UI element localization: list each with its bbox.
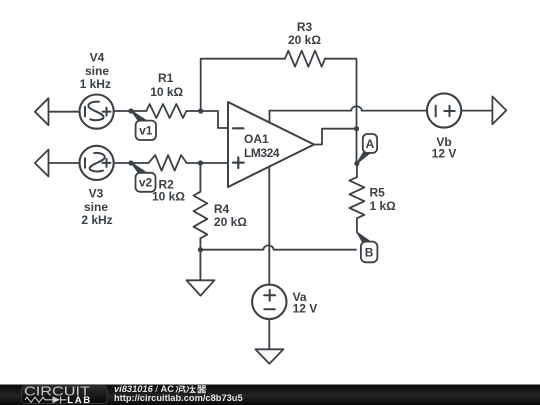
svg-text:V3: V3 <box>89 187 104 201</box>
svg-text:B: B <box>365 245 374 259</box>
svg-text:1 kHz: 1 kHz <box>80 77 111 91</box>
svg-text:OA1: OA1 <box>244 132 269 146</box>
svg-text:R1: R1 <box>158 71 174 85</box>
svg-text:v1: v1 <box>139 124 153 138</box>
svg-text:V4: V4 <box>90 51 105 65</box>
svg-text:10 kΩ: 10 kΩ <box>152 190 185 204</box>
svg-text:LAB: LAB <box>67 395 92 405</box>
svg-text:sine: sine <box>85 64 109 78</box>
svg-text:10 kΩ: 10 kΩ <box>150 85 183 99</box>
svg-text:R5: R5 <box>370 185 386 199</box>
svg-text:20 kΩ: 20 kΩ <box>288 33 321 47</box>
svg-text:12 V: 12 V <box>293 301 318 315</box>
svg-text:A: A <box>366 137 375 151</box>
svg-text:12 V: 12 V <box>432 147 457 161</box>
svg-text:20 kΩ: 20 kΩ <box>214 215 247 229</box>
svg-text:sine: sine <box>84 200 108 214</box>
svg-text:R3: R3 <box>297 20 313 34</box>
svg-text:v2: v2 <box>139 176 153 190</box>
svg-text:http://circuitlab.com/c8b73u5: http://circuitlab.com/c8b73u5 <box>114 393 243 403</box>
svg-text:R4: R4 <box>214 202 230 216</box>
svg-text:LM324: LM324 <box>244 146 280 160</box>
svg-text:1 kΩ: 1 kΩ <box>370 199 397 213</box>
svg-text:2 kHz: 2 kHz <box>81 213 112 227</box>
